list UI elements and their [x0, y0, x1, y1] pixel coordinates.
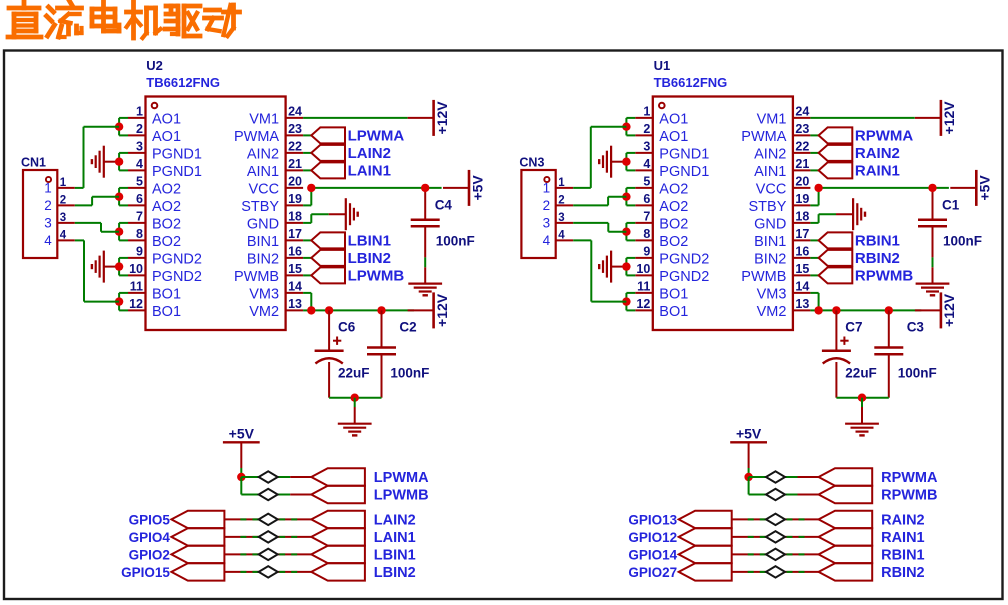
svg-text:BIN1: BIN1	[754, 234, 786, 250]
svg-text:11: 11	[130, 279, 143, 293]
svg-text:C6: C6	[338, 319, 356, 334]
svg-text:LAIN1: LAIN1	[374, 530, 416, 546]
svg-text:CN1: CN1	[21, 156, 46, 170]
svg-text:TB6612FNG: TB6612FNG	[146, 75, 220, 90]
svg-text:3: 3	[558, 212, 564, 224]
svg-text:100nF: 100nF	[898, 365, 937, 380]
svg-text:VM2: VM2	[757, 304, 787, 320]
svg-text:VM2: VM2	[249, 304, 279, 320]
svg-text:STBY: STBY	[241, 199, 279, 215]
svg-text:21: 21	[288, 157, 302, 171]
svg-text:+5V: +5V	[229, 425, 255, 441]
svg-text:VM1: VM1	[757, 112, 787, 128]
svg-text:BO2: BO2	[152, 234, 181, 250]
svg-text:LPWMB: LPWMB	[348, 267, 405, 284]
svg-text:1: 1	[558, 177, 565, 189]
svg-text:LPWMA: LPWMA	[374, 470, 429, 486]
svg-text:1: 1	[543, 181, 551, 196]
svg-text:VM3: VM3	[249, 287, 279, 303]
svg-text:7: 7	[136, 209, 143, 223]
svg-text:20: 20	[288, 174, 302, 188]
svg-text:AO2: AO2	[659, 199, 688, 215]
svg-text:+5V: +5V	[469, 175, 485, 201]
svg-text:AO1: AO1	[659, 112, 688, 128]
svg-text:14: 14	[288, 279, 302, 293]
svg-text:10: 10	[636, 262, 650, 276]
svg-text:6: 6	[643, 192, 650, 206]
svg-text:12: 12	[636, 297, 650, 311]
svg-text:BO1: BO1	[659, 287, 688, 303]
svg-text:4: 4	[643, 157, 650, 171]
svg-text:PGND2: PGND2	[152, 269, 202, 285]
svg-text:17: 17	[288, 227, 302, 241]
svg-text:GPIO14: GPIO14	[628, 547, 677, 562]
svg-text:TB6612FNG: TB6612FNG	[654, 75, 728, 90]
svg-text:PGND1: PGND1	[659, 164, 709, 180]
svg-text:7: 7	[643, 209, 650, 223]
svg-text:2: 2	[136, 122, 143, 136]
svg-text:21: 21	[795, 157, 809, 171]
svg-text:3: 3	[643, 139, 650, 153]
svg-text:1: 1	[136, 104, 143, 118]
svg-text:+5V: +5V	[736, 425, 762, 441]
svg-text:8: 8	[643, 227, 650, 241]
svg-text:5: 5	[643, 174, 650, 188]
svg-text:AIN1: AIN1	[247, 164, 279, 180]
svg-text:AO1: AO1	[152, 112, 181, 128]
svg-text:22: 22	[288, 139, 302, 153]
svg-text:16: 16	[795, 244, 809, 258]
svg-text:3: 3	[60, 212, 66, 224]
svg-text:AIN1: AIN1	[754, 164, 786, 180]
svg-text:2: 2	[643, 122, 650, 136]
svg-text:13: 13	[288, 297, 302, 311]
svg-text:2: 2	[558, 194, 564, 206]
svg-text:24: 24	[795, 104, 809, 118]
svg-text:RBIN1: RBIN1	[881, 547, 925, 563]
svg-text:+12V: +12V	[434, 101, 450, 135]
svg-text:RPWMB: RPWMB	[881, 487, 937, 503]
svg-text:GND: GND	[247, 217, 279, 233]
svg-text:CN3: CN3	[519, 156, 544, 170]
svg-text:RAIN2: RAIN2	[855, 145, 900, 162]
svg-text:AO1: AO1	[152, 129, 181, 145]
svg-text:C3: C3	[907, 319, 925, 334]
svg-text:LAIN1: LAIN1	[348, 162, 391, 179]
svg-text:15: 15	[288, 262, 302, 276]
svg-text:4: 4	[558, 229, 565, 241]
svg-text:GPIO2: GPIO2	[129, 547, 170, 562]
svg-text:LBIN2: LBIN2	[374, 565, 416, 581]
svg-text:2: 2	[44, 198, 52, 213]
svg-text:LPWMB: LPWMB	[374, 487, 429, 503]
svg-text:+12V: +12V	[434, 293, 450, 327]
svg-text:GPIO13: GPIO13	[628, 512, 677, 527]
svg-text:RBIN1: RBIN1	[855, 232, 900, 249]
svg-text:BIN2: BIN2	[247, 252, 279, 268]
svg-text:3: 3	[543, 216, 551, 231]
svg-text:LAIN2: LAIN2	[348, 145, 391, 162]
svg-text:PWMB: PWMB	[741, 269, 786, 285]
svg-text:22uF: 22uF	[338, 365, 370, 380]
svg-text:AIN2: AIN2	[754, 147, 786, 163]
svg-text:+5V: +5V	[977, 175, 993, 201]
svg-text:4: 4	[136, 157, 143, 171]
svg-text:18: 18	[795, 209, 809, 223]
svg-text:PGND1: PGND1	[152, 147, 202, 163]
svg-text:19: 19	[795, 192, 809, 206]
svg-text:5: 5	[136, 174, 143, 188]
svg-text:AO1: AO1	[659, 129, 688, 145]
svg-text:1: 1	[643, 104, 650, 118]
svg-text:12: 12	[129, 297, 143, 311]
svg-text:PGND2: PGND2	[659, 252, 709, 268]
svg-text:RPWMA: RPWMA	[855, 127, 913, 144]
svg-text:RAIN2: RAIN2	[881, 512, 925, 528]
svg-text:PWMA: PWMA	[741, 129, 786, 145]
svg-text:20: 20	[795, 174, 809, 188]
svg-text:STBY: STBY	[749, 199, 787, 215]
svg-text:LBIN1: LBIN1	[374, 547, 416, 563]
svg-text:U2: U2	[146, 58, 163, 73]
svg-text:100nF: 100nF	[390, 365, 429, 380]
svg-text:BIN1: BIN1	[247, 234, 279, 250]
svg-text:3: 3	[44, 216, 52, 231]
svg-text:C4: C4	[435, 198, 453, 213]
svg-text:GPIO5: GPIO5	[129, 512, 171, 527]
svg-text:C1: C1	[942, 198, 960, 213]
svg-text:U1: U1	[654, 58, 671, 73]
svg-text:3: 3	[136, 139, 143, 153]
svg-text:15: 15	[795, 262, 809, 276]
svg-text:BO1: BO1	[152, 287, 181, 303]
svg-text:4: 4	[543, 233, 551, 248]
svg-text:1: 1	[60, 177, 67, 189]
svg-text:22: 22	[795, 139, 809, 153]
svg-text:9: 9	[136, 244, 143, 258]
svg-text:RBIN2: RBIN2	[881, 565, 925, 581]
svg-text:8: 8	[136, 227, 143, 241]
svg-text:BO2: BO2	[659, 217, 688, 233]
svg-text:C7: C7	[845, 319, 862, 334]
svg-text:100nF: 100nF	[943, 234, 982, 249]
svg-text:PWMB: PWMB	[234, 269, 279, 285]
svg-text:14: 14	[795, 279, 809, 293]
svg-text:16: 16	[288, 244, 302, 258]
svg-text:RPWMA: RPWMA	[881, 470, 938, 486]
svg-text:10: 10	[129, 262, 143, 276]
svg-text:+12V: +12V	[941, 101, 957, 135]
svg-text:13: 13	[795, 297, 809, 311]
svg-text:6: 6	[136, 192, 143, 206]
svg-text:BO1: BO1	[659, 304, 688, 320]
svg-text:BO2: BO2	[152, 217, 181, 233]
svg-text:RAIN1: RAIN1	[855, 162, 900, 179]
svg-text:PGND2: PGND2	[659, 269, 709, 285]
svg-text:19: 19	[288, 192, 302, 206]
svg-text:RBIN2: RBIN2	[855, 250, 900, 267]
svg-text:GND: GND	[754, 217, 786, 233]
svg-text:GPIO12: GPIO12	[628, 530, 677, 545]
svg-text:100nF: 100nF	[436, 234, 475, 249]
svg-text:VM3: VM3	[757, 287, 787, 303]
svg-text:LBIN1: LBIN1	[348, 232, 391, 249]
svg-text:BO1: BO1	[152, 304, 181, 320]
svg-text:2: 2	[543, 198, 551, 213]
svg-text:17: 17	[795, 227, 809, 241]
svg-text:GPIO4: GPIO4	[129, 530, 171, 545]
svg-text:VCC: VCC	[756, 182, 787, 198]
svg-text:1: 1	[44, 181, 52, 196]
svg-text:LPWMA: LPWMA	[348, 127, 405, 144]
svg-text:PGND2: PGND2	[152, 252, 202, 268]
svg-text:AO2: AO2	[152, 199, 181, 215]
svg-text:PGND1: PGND1	[152, 164, 202, 180]
svg-text:RAIN1: RAIN1	[881, 530, 925, 546]
svg-text:BO2: BO2	[659, 234, 688, 250]
svg-text:BIN2: BIN2	[754, 252, 786, 268]
svg-text:4: 4	[60, 229, 67, 241]
svg-text:GPIO15: GPIO15	[121, 565, 170, 580]
svg-text:PWMA: PWMA	[234, 129, 279, 145]
svg-text:AO2: AO2	[659, 182, 688, 198]
svg-text:LAIN2: LAIN2	[374, 512, 416, 528]
svg-text:22uF: 22uF	[845, 365, 877, 380]
svg-text:2: 2	[60, 194, 66, 206]
svg-text:23: 23	[795, 122, 809, 136]
svg-text:11: 11	[637, 279, 650, 293]
svg-text:AIN2: AIN2	[247, 147, 279, 163]
svg-text:23: 23	[288, 122, 302, 136]
svg-text:24: 24	[288, 104, 302, 118]
svg-text:+12V: +12V	[941, 293, 957, 327]
svg-text:4: 4	[44, 233, 52, 248]
svg-text:VCC: VCC	[248, 182, 279, 198]
svg-text:C2: C2	[399, 319, 416, 334]
svg-text:VM1: VM1	[249, 112, 279, 128]
svg-text:RPWMB: RPWMB	[855, 267, 913, 284]
svg-text:LBIN2: LBIN2	[348, 250, 391, 267]
svg-text:18: 18	[288, 209, 302, 223]
svg-text:AO2: AO2	[152, 182, 181, 198]
svg-text:9: 9	[643, 244, 650, 258]
svg-text:GPIO27: GPIO27	[628, 565, 677, 580]
svg-text:PGND1: PGND1	[659, 147, 709, 163]
